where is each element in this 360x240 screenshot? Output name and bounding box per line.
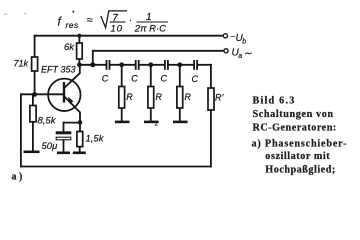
svg-text:f: f	[58, 15, 63, 29]
svg-text:Schaltungen von: Schaltungen von	[253, 109, 334, 120]
svg-text:oszillator mit: oszillator mit	[265, 151, 330, 162]
svg-text:C: C	[161, 74, 168, 84]
svg-text:z: z	[154, 122, 158, 128]
svg-text:a) Phasenschieber-: a) Phasenschieber-	[252, 139, 348, 150]
svg-text:a ): a )	[12, 172, 23, 183]
svg-text:8,5k: 8,5k	[38, 116, 57, 127]
svg-text:R: R	[126, 92, 133, 102]
svg-text:1,5k: 1,5k	[86, 134, 105, 145]
svg-text:50μ: 50μ	[42, 141, 59, 152]
svg-text:b: b	[242, 38, 246, 45]
svg-text:res: res	[66, 20, 79, 30]
svg-text:C: C	[131, 74, 138, 84]
svg-text:Hochpaßglied;: Hochpaßglied;	[265, 164, 335, 175]
svg-text:C: C	[102, 74, 109, 84]
svg-text:·: ·	[129, 15, 132, 26]
svg-text:R: R	[155, 92, 162, 102]
svg-text:1: 1	[146, 12, 152, 23]
svg-text:Bild 6.3: Bild 6.3	[253, 96, 296, 107]
svg-text:a: a	[238, 53, 242, 60]
svg-text:∼: ∼	[244, 49, 253, 60]
svg-text:R’: R’	[215, 93, 224, 103]
svg-text:10: 10	[111, 24, 123, 35]
svg-text:≈: ≈	[87, 15, 93, 27]
svg-text:R: R	[184, 92, 191, 102]
svg-text:71k: 71k	[14, 59, 29, 69]
svg-text:−: −	[230, 32, 235, 42]
svg-text:2π R·C: 2π R·C	[134, 24, 166, 35]
svg-text:6k: 6k	[64, 42, 75, 53]
svg-text:C: C	[192, 74, 199, 84]
svg-text:RC-Generatoren:: RC-Generatoren:	[253, 122, 337, 133]
svg-text:EFT 353: EFT 353	[41, 65, 76, 75]
